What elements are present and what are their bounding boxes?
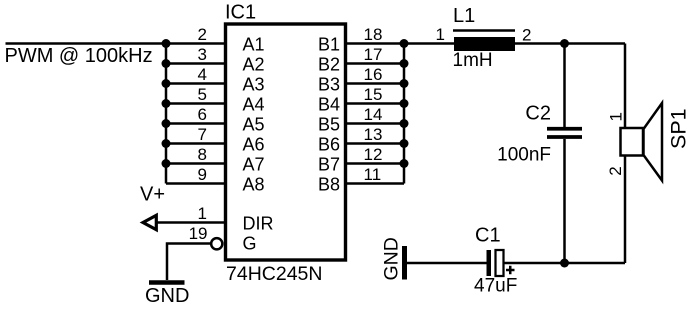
svg-text:2: 2 bbox=[198, 25, 207, 44]
svg-text:19: 19 bbox=[189, 224, 208, 243]
wire pin 8 row bbox=[166, 162, 225, 165]
junction dot B-bus pin16 bbox=[400, 79, 409, 88]
svg-text:A8: A8 bbox=[243, 175, 265, 195]
svg-text:16: 16 bbox=[364, 65, 383, 84]
capacitor C1 positive plate bbox=[496, 250, 504, 276]
svg-text:L1: L1 bbox=[453, 5, 475, 27]
svg-text:B7: B7 bbox=[318, 155, 340, 175]
svg-text:11: 11 bbox=[364, 165, 382, 184]
capacitor C2 top plate bbox=[547, 127, 582, 131]
svg-text:8: 8 bbox=[198, 145, 207, 164]
svg-text:2: 2 bbox=[522, 26, 531, 45]
wire L1 right to speaker branch bbox=[515, 42, 625, 45]
svg-text:47uF: 47uF bbox=[474, 276, 517, 297]
junction dot A-bus pin4 bbox=[162, 79, 171, 88]
speaker SP1 box bbox=[621, 128, 644, 156]
junction dot B-bus pin14 bbox=[400, 119, 409, 128]
svg-text:G: G bbox=[243, 234, 257, 254]
inversion bubble G pin bbox=[211, 238, 222, 249]
junction dot B-bus pin15 bbox=[400, 99, 409, 108]
capacitor C1 negative plate bbox=[487, 250, 492, 276]
wire pin 13 row bbox=[346, 142, 405, 145]
ground GND symbol left of C1 bbox=[402, 246, 407, 280]
wire pin 2 row bbox=[166, 42, 225, 45]
wire left A-bus vertical bbox=[165, 44, 168, 184]
junction dot A-bus pin8 bbox=[162, 159, 171, 168]
svg-text:2: 2 bbox=[606, 166, 625, 175]
ground GND symbol under IC bbox=[149, 280, 185, 285]
capacitor C2 bottom plate bbox=[547, 135, 582, 139]
wire pin 16 row bbox=[346, 82, 405, 85]
junction dot A-bus pin7 bbox=[162, 139, 171, 148]
svg-text:15: 15 bbox=[364, 85, 383, 104]
wire GND to C1 bbox=[407, 262, 488, 265]
wire C2 bottom bbox=[563, 139, 566, 263]
wire speaker bottom pin 2 bbox=[624, 156, 627, 264]
junction dot B-bus pin13 bbox=[400, 139, 409, 148]
svg-text:1: 1 bbox=[607, 112, 626, 121]
wire pin 12 row bbox=[346, 162, 405, 165]
svg-text:C1: C1 bbox=[475, 225, 501, 247]
svg-text:B1: B1 bbox=[318, 35, 340, 55]
svg-text:3: 3 bbox=[198, 45, 207, 64]
junction dot top C2 branch bbox=[560, 39, 569, 48]
wire pin 6 row bbox=[166, 122, 225, 125]
svg-text:B4: B4 bbox=[318, 95, 340, 115]
svg-text:PWM @ 100kHz: PWM @ 100kHz bbox=[5, 45, 153, 67]
svg-text:4: 4 bbox=[198, 65, 207, 84]
junction dot bottom rail bbox=[560, 259, 569, 268]
svg-text:A4: A4 bbox=[243, 95, 265, 115]
svg-text:13: 13 bbox=[364, 125, 383, 144]
wire L1 left bbox=[404, 42, 454, 45]
wire pin 17 row bbox=[346, 62, 405, 65]
plus sign of C1 bbox=[506, 266, 515, 275]
wire C1 to junction bbox=[504, 262, 626, 265]
wire pin 18 row bbox=[346, 42, 405, 45]
IC1 body 74HC245N bbox=[226, 24, 346, 260]
svg-text:A6: A6 bbox=[243, 135, 265, 155]
svg-text:IC1: IC1 bbox=[225, 2, 256, 24]
wire pin 15 row bbox=[346, 102, 405, 105]
wire pin 14 row bbox=[346, 122, 405, 125]
svg-text:V+: V+ bbox=[140, 184, 165, 206]
supply arrow V+ bbox=[143, 215, 156, 229]
svg-text:GND: GND bbox=[381, 237, 403, 280]
svg-text:A1: A1 bbox=[243, 35, 265, 55]
svg-text:12: 12 bbox=[364, 145, 383, 164]
svg-text:B5: B5 bbox=[318, 115, 340, 135]
wire pin 7 row bbox=[166, 142, 225, 145]
svg-text:A3: A3 bbox=[243, 75, 265, 95]
svg-text:B6: B6 bbox=[318, 135, 340, 155]
svg-text:1: 1 bbox=[198, 204, 207, 223]
svg-text:7: 7 bbox=[198, 125, 207, 144]
wire C2 top bbox=[563, 44, 566, 128]
junction dot B-bus pin12 bbox=[400, 159, 409, 168]
junction dot B-bus pin17 bbox=[400, 59, 409, 68]
svg-text:74HC245N: 74HC245N bbox=[226, 263, 322, 285]
wire pin 5 row bbox=[166, 102, 225, 105]
wire speaker top branch vertical bbox=[624, 44, 627, 130]
svg-text:14: 14 bbox=[364, 105, 383, 124]
svg-text:A5: A5 bbox=[243, 115, 265, 135]
svg-text:B3: B3 bbox=[318, 75, 340, 95]
svg-text:5: 5 bbox=[198, 85, 207, 104]
junction dot A-bus pin3 bbox=[162, 59, 171, 68]
junction dot B-bus pin18 bbox=[400, 39, 409, 48]
wire pin 9 row bbox=[166, 182, 225, 185]
svg-text:DIR: DIR bbox=[243, 214, 274, 234]
svg-text:GND: GND bbox=[145, 285, 189, 307]
wire right B-bus vertical bbox=[403, 44, 406, 184]
svg-text:C2: C2 bbox=[525, 103, 551, 125]
junction dot A-bus pin2 bbox=[162, 39, 171, 48]
svg-text:B8: B8 bbox=[318, 175, 340, 195]
wire pin 3 row bbox=[166, 62, 225, 65]
svg-text:A2: A2 bbox=[243, 55, 265, 75]
svg-text:18: 18 bbox=[364, 25, 383, 44]
junction dot A-bus pin6 bbox=[162, 119, 171, 128]
svg-text:100nF: 100nF bbox=[497, 145, 551, 166]
svg-text:6: 6 bbox=[198, 105, 207, 124]
wire PWM input to left bus bbox=[6, 42, 167, 45]
svg-text:17: 17 bbox=[364, 45, 383, 64]
wire G pin to GND bbox=[167, 244, 211, 281]
inductor L1 body bbox=[454, 37, 515, 51]
svg-text:SP1: SP1 bbox=[667, 108, 691, 149]
inductor L1 top bar bbox=[453, 29, 515, 32]
svg-text:B2: B2 bbox=[318, 55, 340, 75]
wire pin 4 row bbox=[166, 82, 225, 85]
wire DIR pin 1 bbox=[157, 221, 225, 224]
svg-text:A7: A7 bbox=[243, 155, 265, 175]
junction dot A-bus pin5 bbox=[162, 99, 171, 108]
wire pin 11 row bbox=[346, 182, 405, 185]
svg-text:9: 9 bbox=[198, 165, 207, 184]
svg-text:1mH: 1mH bbox=[453, 50, 493, 71]
speaker SP1 horn bbox=[644, 103, 663, 181]
svg-text:1: 1 bbox=[436, 25, 445, 44]
